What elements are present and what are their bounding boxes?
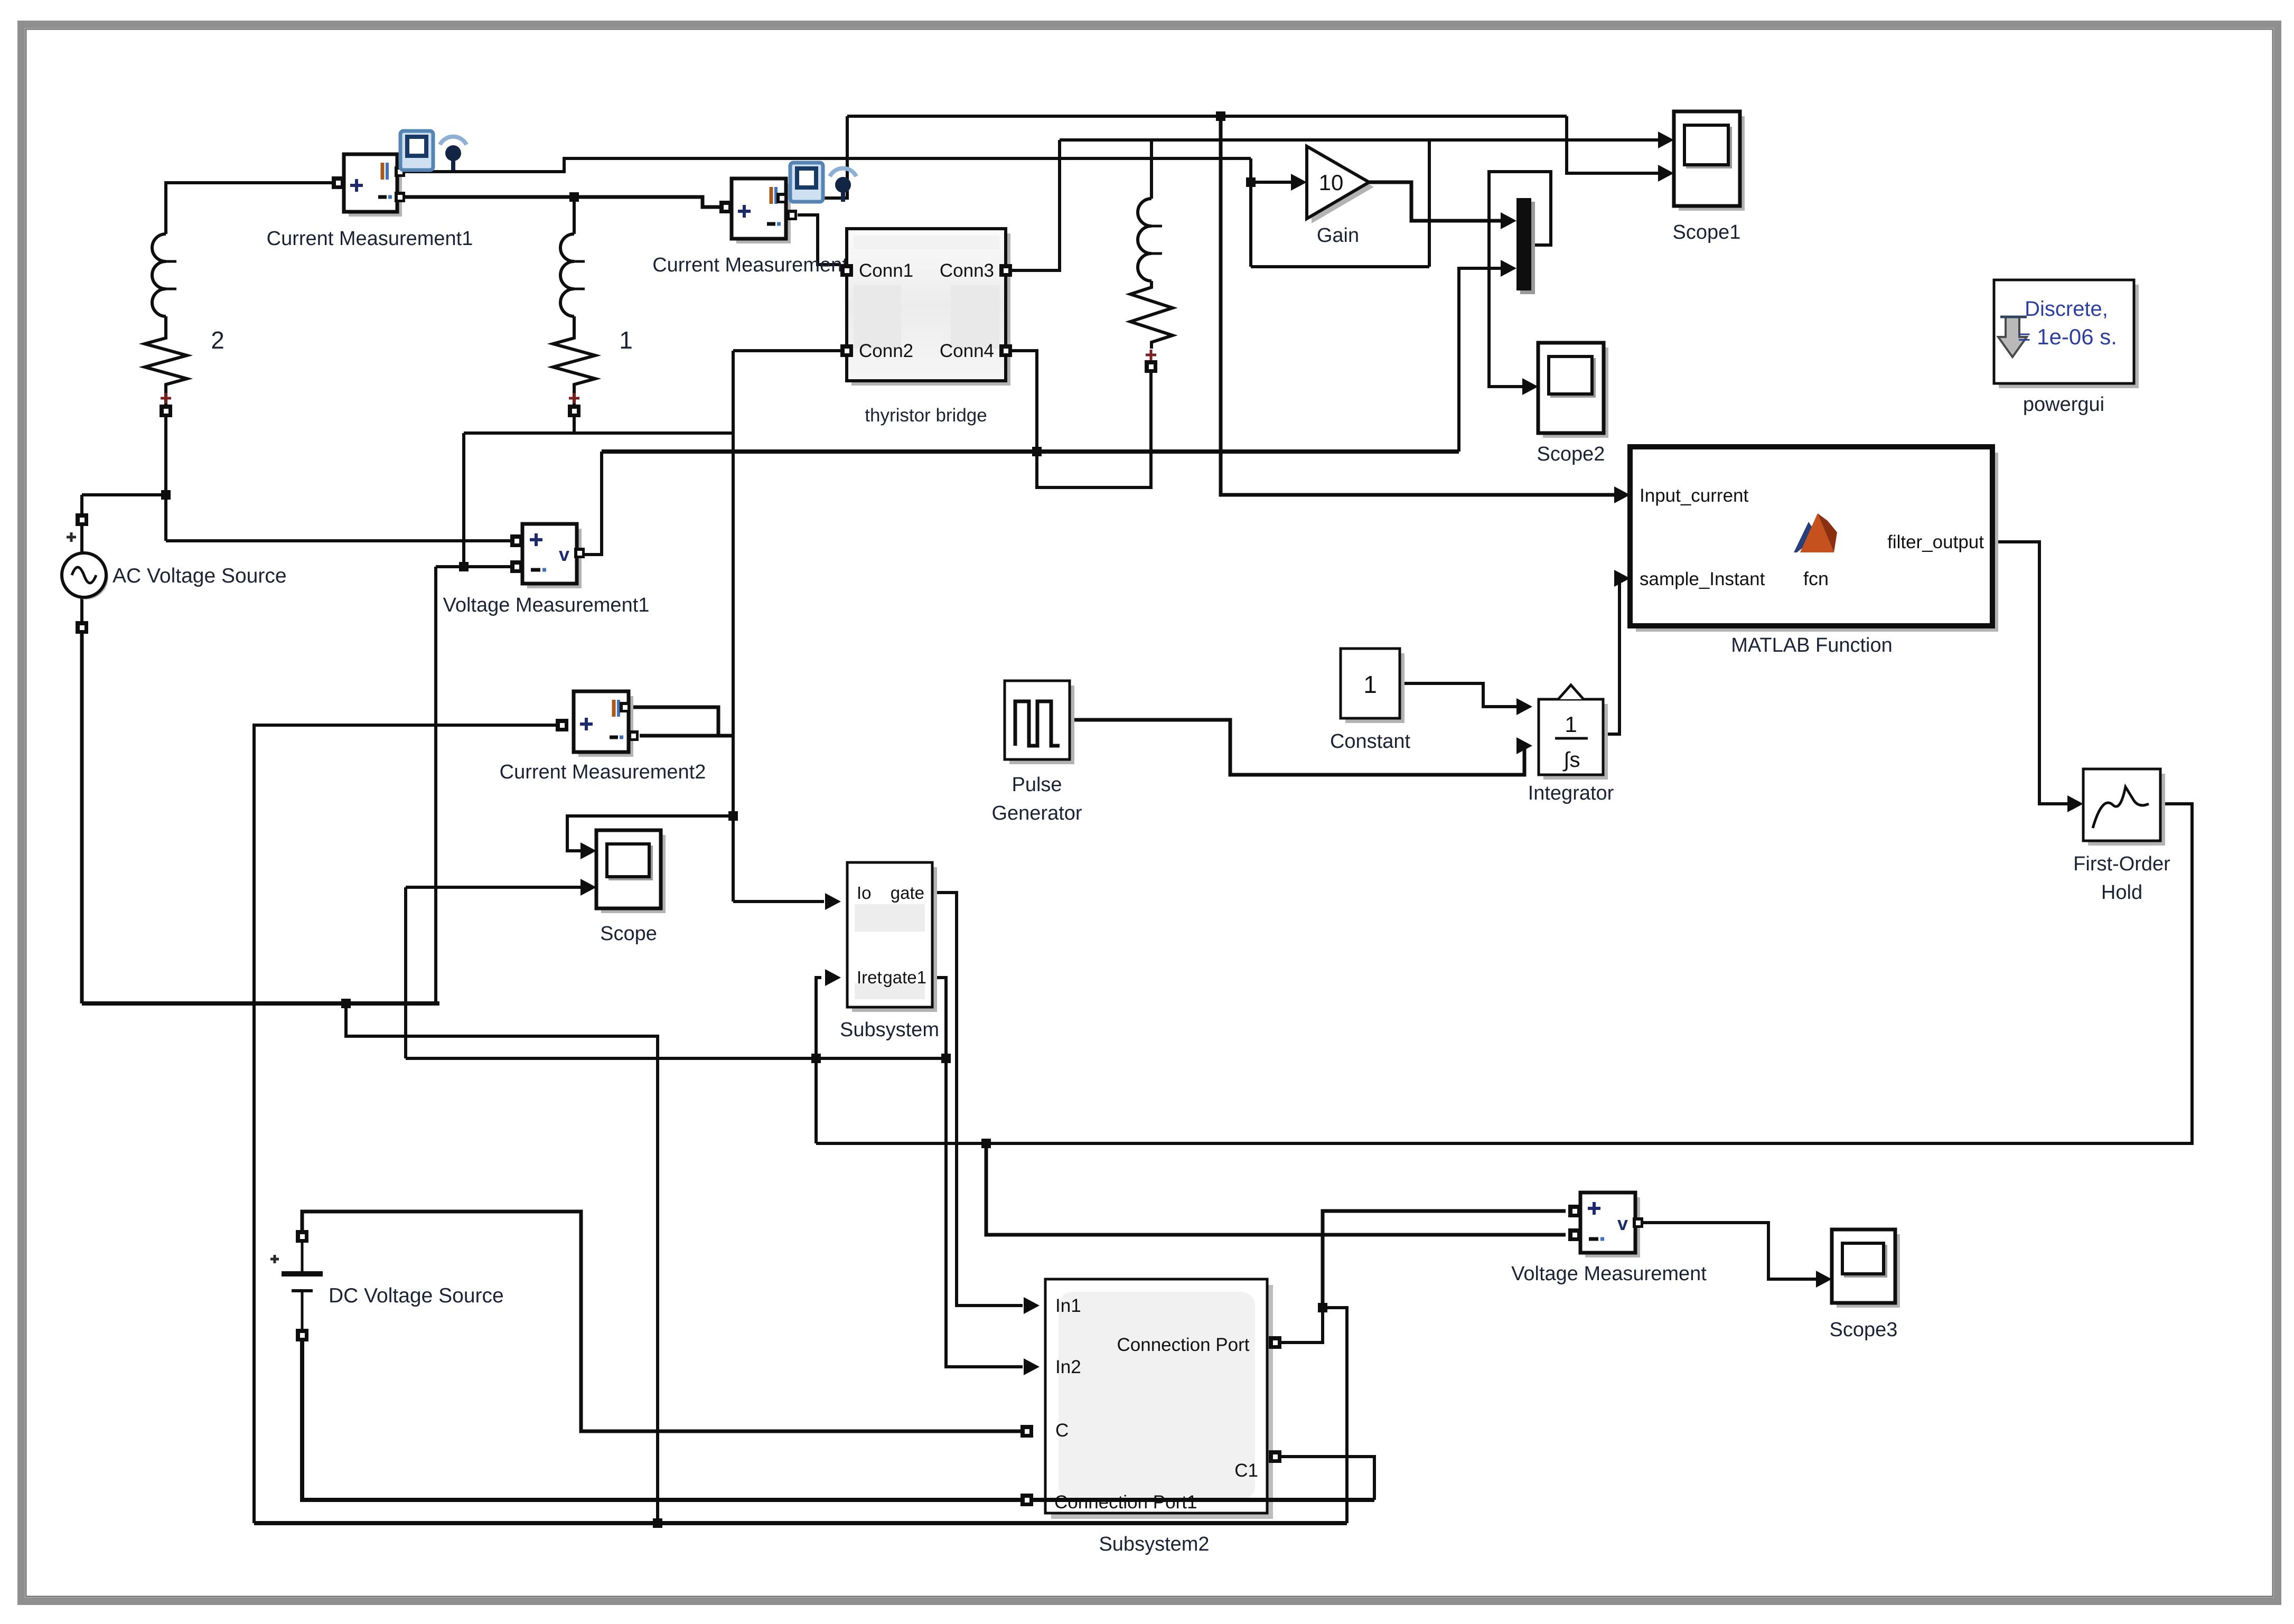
svg-text:DC Voltage Source: DC Voltage Source: [329, 1284, 504, 1307]
wire C1 loop: [1281, 1457, 1374, 1500]
svg-text:thyristor bridge: thyristor bridge: [865, 405, 987, 426]
svg-text:sample_Instant: sample_Instant: [1640, 569, 1765, 589]
wire CM2 I output riser: [786, 116, 847, 198]
arrowhead Scope2 in arrow: [1522, 378, 1538, 395]
wire line y265 to Scope1: [1060, 138, 1660, 142]
node junction AC+ tap: [161, 490, 171, 500]
arrowhead Scope1 in1 arrow: [1658, 132, 1674, 148]
svg-text:v: v: [1617, 1213, 1628, 1234]
wire scope in2 drop: [404, 887, 407, 1058]
wire Io input: [733, 900, 824, 903]
wire VM plus feed: [1323, 1211, 1566, 1308]
block Voltage Measurement U5: [1585, 1197, 1640, 1257]
wire VM1 minus drop: [434, 567, 437, 1003]
svg-text:∫s: ∫s: [1563, 748, 1580, 772]
arrowhead In2 arrow: [1024, 1358, 1040, 1375]
wire Conn3 riser: [1012, 140, 1060, 270]
polarity mark R1 plus: [569, 393, 579, 403]
port CM3 - out port: [628, 730, 639, 741]
wire AC source plus link: [82, 493, 166, 496]
svg-text:Connection Port1: Connection Port1: [1054, 1492, 1197, 1513]
wire R2 to port: [164, 391, 167, 405]
badge scope icon CM1: [400, 131, 433, 170]
node junction VM1 minus: [459, 562, 469, 571]
inductor L3: [1138, 199, 1151, 281]
port Connection Port out: [1269, 1336, 1281, 1349]
svg-text:2: 2: [211, 326, 224, 354]
block Scope3: [1837, 1234, 1900, 1308]
svg-text:gate1: gate1: [883, 968, 926, 987]
svg-text:Generator: Generator: [991, 802, 1082, 824]
port VM out port: [1633, 1217, 1643, 1228]
node junction FOH feedback tap: [981, 1139, 991, 1148]
wire VM minus tap: [986, 1143, 1566, 1235]
svg-text:Io: Io: [857, 883, 872, 903]
block Subsystem2: [1051, 1285, 1273, 1519]
block Scope2: [1543, 348, 1608, 438]
port CM3 + port: [556, 719, 568, 731]
wire CM2 minus to Conn1: [798, 215, 841, 265]
svg-text:= 1e-06 s.: = 1e-06 s.: [2018, 324, 2117, 349]
wire AC plus stub: [80, 495, 83, 634]
svg-text:Iret: Iret: [857, 968, 882, 987]
wire top line y220: [847, 115, 1567, 118]
port CM1 I out port: [395, 166, 405, 177]
block Integrator: [1543, 704, 1608, 780]
wire R1 to port: [573, 391, 576, 405]
svg-text:Gain: Gain: [1317, 224, 1359, 247]
svg-text:MATLAB Function: MATLAB Function: [1731, 634, 1893, 656]
port Conn3 port: [999, 264, 1012, 277]
inductor L1: [560, 234, 574, 316]
wire scope in1 feed: [567, 816, 733, 851]
block Voltage Measurement1 U3: [527, 529, 582, 588]
wire VM output to Scope3: [1635, 1223, 1818, 1279]
svg-text:Conn2: Conn2: [859, 341, 913, 361]
wire column x1388: [732, 351, 735, 902]
block Scope1: [1679, 116, 1745, 211]
svg-text:AC Voltage Source: AC Voltage Source: [113, 565, 287, 587]
MATLAB fcn logo: [1794, 522, 1818, 552]
svg-text:Current Measurement: Current Measurement: [652, 254, 848, 276]
svg-text:Input_current: Input_current: [1640, 485, 1749, 506]
port Connection Port1 port: [1020, 1494, 1033, 1506]
port CM1 + port: [332, 176, 344, 189]
svg-text:First-Order: First-Order: [2073, 853, 2170, 875]
svg-text:10: 10: [1319, 170, 1344, 195]
arrowhead Gain in arrow: [1291, 174, 1307, 191]
block Scope: [601, 835, 666, 913]
wire L2-R2 link: [164, 316, 167, 332]
polarity mark R3 plus: [1146, 350, 1156, 360]
block Constant: [1345, 653, 1405, 723]
port CM1 - out port: [395, 192, 405, 202]
port VM + port: [1568, 1205, 1581, 1217]
svg-text:Subsystem2: Subsystem2: [1099, 1533, 1209, 1555]
resistor R1: [553, 332, 595, 391]
wire Conn4 riser: [1012, 351, 1151, 487]
svg-text:Subsystem: Subsystem: [840, 1019, 939, 1041]
arrowhead Scope in2 arrow: [580, 879, 596, 896]
svg-text:Conn4: Conn4: [940, 341, 994, 361]
port VM1 + port: [510, 534, 523, 547]
arrowhead Io arrow: [825, 893, 841, 910]
arrowhead Integrator in2 arrow: [1516, 737, 1532, 754]
wire DC plus to C: [302, 1212, 1021, 1431]
svg-text:C1: C1: [1234, 1460, 1258, 1481]
block Subsystem: [852, 867, 937, 1012]
wire gain output: [1369, 182, 1506, 221]
wire CM1 I output: [402, 158, 1251, 172]
node junction y2884: [653, 1518, 662, 1528]
wire bottom rail y1900: [82, 1001, 439, 1006]
svg-text:filter_output: filter_output: [1887, 532, 1984, 552]
resistor R2: [145, 332, 187, 391]
arrowhead FOH in arrow: [2067, 795, 2083, 812]
block thyristor bridge: [851, 233, 1010, 386]
port R2 port: [160, 405, 172, 417]
block First-Order Hold: [2088, 774, 2165, 846]
wire upper rail to VM1 minus: [462, 433, 465, 567]
wire Conn2 input: [733, 349, 841, 352]
arrowhead In1 arrow: [1024, 1297, 1040, 1314]
svg-text:fcn: fcn: [1803, 568, 1829, 589]
wire R2 port down to VM1 row: [164, 417, 167, 541]
wire CM1 plus input: [166, 183, 338, 234]
port VM1 out port: [574, 548, 585, 558]
block Current Measurement2 U4: [578, 696, 633, 757]
wire gain loop bottom: [1251, 265, 1429, 268]
port CM2 I out port: [776, 193, 787, 203]
block powergui: [1999, 285, 2139, 388]
port C port: [1020, 1425, 1033, 1438]
block MATLAB Function: [1636, 453, 1998, 632]
wire filter_output drop: [1992, 542, 2074, 804]
wire input current drop: [1221, 116, 1621, 495]
svg-text:In2: In2: [1055, 1357, 1081, 1377]
arrowhead Scope1 in2 arrow: [1658, 165, 1674, 182]
svg-text:gate: gate: [891, 883, 924, 903]
wire line y2004: [406, 1057, 946, 1060]
wire L1 top drop: [573, 197, 576, 234]
badge antenna icon CM2: [830, 168, 856, 176]
svg-text:v: v: [559, 543, 569, 565]
wire gate1 to In2: [932, 978, 1023, 1367]
port AC - port: [76, 621, 88, 634]
wire constant output: [1400, 683, 1522, 707]
wire integrator output riser: [1603, 578, 1621, 734]
arrowhead Mux in1 arrow: [1501, 212, 1516, 229]
port C1 out: [1269, 1450, 1281, 1463]
node junction x1388 scope tap: [728, 811, 738, 821]
svg-text:Pulse: Pulse: [1012, 774, 1062, 796]
block Pulse Generator: [1009, 686, 1074, 764]
badge antenna icon CM1: [440, 137, 466, 145]
arrowhead Mux in2 arrow: [1501, 260, 1516, 277]
port VM - port: [1568, 1228, 1581, 1241]
badge scope icon CM2: [790, 163, 823, 202]
node junction input-current tap: [1216, 111, 1225, 121]
wire CM1 minus output: [402, 197, 720, 207]
wire mux output loop: [1489, 172, 1551, 387]
wire L1-R1 link: [573, 316, 576, 332]
wire ConnPort output riser: [1281, 1308, 1323, 1343]
arrowhead Scope3 arrow: [1816, 1271, 1832, 1288]
arrowhead Scope in1 arrow: [580, 842, 596, 859]
arrowhead Input_current arrow: [1614, 486, 1630, 503]
port DC + port: [296, 1230, 308, 1243]
svg-text:Current Measurement1: Current Measurement1: [267, 228, 473, 250]
wire VM1 minus feed: [436, 565, 512, 568]
arrowhead Iret arrow: [825, 969, 841, 986]
integrator saturation hat: [1558, 685, 1584, 699]
wire rail to In-feed drop: [346, 1003, 658, 1523]
wire AC minus down left rail: [80, 634, 84, 1003]
port CM2 - out port: [786, 210, 797, 220]
svg-text:Connection Port: Connection Port: [1117, 1335, 1250, 1355]
svg-text:Conn3: Conn3: [940, 260, 994, 281]
svg-text:1: 1: [1363, 671, 1377, 698]
svg-text:1: 1: [619, 326, 633, 354]
wire VM1 plus input: [166, 539, 517, 542]
port CM3 I out port: [620, 702, 630, 712]
port DC - port: [296, 1329, 308, 1341]
wire gate to In1: [932, 893, 1023, 1306]
svg-text:Voltage Measurement1: Voltage Measurement1: [443, 594, 650, 616]
wire line y820: [464, 431, 733, 435]
wire FOH output feedback: [816, 804, 2192, 1143]
port R1 port: [568, 405, 580, 417]
node junction gain input: [1246, 177, 1256, 187]
svg-text:Conn1: Conn1: [859, 260, 913, 281]
wire CM3 minus output: [640, 734, 733, 738]
wire riser to VM junction: [1327, 1308, 1347, 1523]
block Current Measurement U2: [736, 183, 791, 243]
wire mux in2 feed: [1459, 268, 1506, 452]
port CM2 + port: [719, 201, 732, 213]
polarity mark R2 plus: [161, 393, 171, 403]
inductor L2: [152, 234, 166, 316]
arrowhead sample_Instant arrow: [1614, 570, 1630, 587]
svg-text:Scope3: Scope3: [1830, 1319, 1898, 1341]
wire gain input: [1251, 181, 1295, 184]
resistor R3: [1130, 281, 1173, 349]
port VM1 - port: [510, 560, 523, 573]
powergui sample-time arrow icon: [1998, 317, 2027, 357]
AC voltage source: [64, 555, 108, 599]
wire bottom feed y2884: [254, 1521, 1347, 1525]
wire VM1 output riser: [583, 452, 602, 555]
svg-text:In1: In1: [1055, 1296, 1081, 1316]
wire scope1 in2 drop: [1567, 116, 1660, 173]
node junction left rail: [341, 999, 351, 1008]
arrowhead Integrator in1 arrow: [1516, 698, 1532, 715]
node junction VM plus: [1318, 1303, 1327, 1312]
svg-text:Discrete,: Discrete,: [2025, 297, 2108, 321]
wire gain loop left: [1249, 158, 1252, 267]
svg-text:Scope2: Scope2: [1537, 443, 1605, 465]
mux bar: [1520, 202, 1535, 294]
wire DC minus line: [302, 1335, 1374, 1500]
node junction CM1 minus / L1: [569, 192, 579, 202]
node junction Conn4 bus: [1032, 447, 1042, 456]
port Conn4 port: [999, 344, 1012, 357]
port AC + port: [76, 513, 88, 526]
svg-text:C: C: [1055, 1420, 1069, 1441]
svg-text:Scope: Scope: [600, 923, 657, 945]
wire R1 port stub: [573, 417, 576, 433]
node junction gate1-y2004: [941, 1054, 951, 1063]
pulse waveform icon: [1015, 701, 1060, 746]
wire RL branch top drop: [1150, 140, 1153, 199]
port Conn1 port: [840, 264, 853, 277]
svg-text:Constant: Constant: [1330, 730, 1411, 753]
svg-text:powergui: powergui: [2023, 393, 2104, 416]
wire CM3 plus input: [254, 725, 561, 1523]
node junction Iret-y2004: [811, 1054, 821, 1063]
block Current Measurement1 U1: [349, 159, 402, 217]
wire Iret riser: [816, 978, 821, 1143]
wire scope in2 feed: [406, 886, 585, 889]
block Gain: [1312, 151, 1374, 223]
wire bus y855: [602, 449, 1459, 454]
wire pulse generator output: [1070, 720, 1524, 775]
svg-text:Scope1: Scope1: [1673, 221, 1741, 243]
wire gain loop right riser: [1428, 140, 1431, 267]
svg-text:1: 1: [1565, 712, 1577, 737]
svg-text:Hold: Hold: [2101, 881, 2142, 904]
port Conn2 port: [840, 344, 853, 357]
wire CM3 I output: [629, 707, 718, 735]
svg-text:Voltage Measurement: Voltage Measurement: [1511, 1263, 1707, 1285]
svg-text:Current Measurement2: Current Measurement2: [500, 761, 706, 783]
wire DC minus overlay through Subsystem2: [1038, 1498, 1374, 1502]
svg-text:Integrator: Integrator: [1528, 782, 1614, 804]
FOH curve icon: [2093, 787, 2149, 828]
port R3 port: [1145, 360, 1157, 373]
